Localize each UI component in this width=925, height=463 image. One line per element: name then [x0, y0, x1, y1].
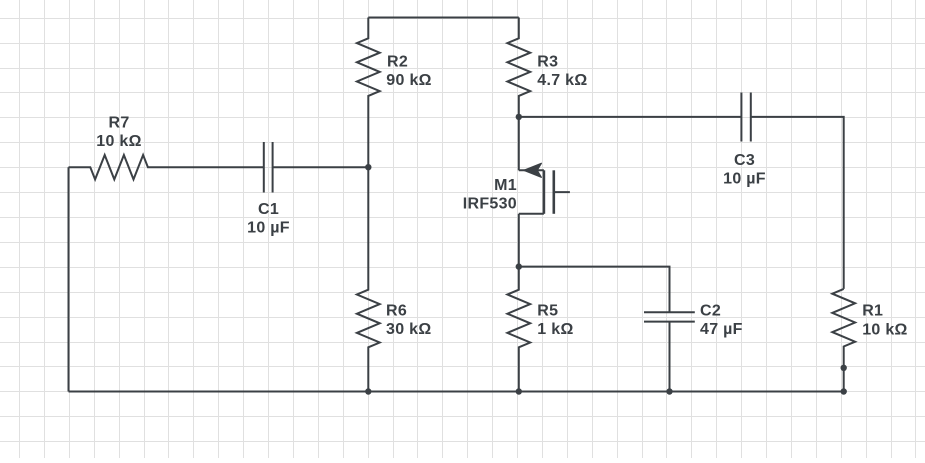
svg-text:4.7 kΩ: 4.7 kΩ	[537, 72, 587, 89]
svg-text:10 µF: 10 µF	[247, 220, 290, 237]
node divider junction	[365, 164, 371, 170]
resistor R3	[507, 18, 587, 117]
resistor R5	[507, 267, 573, 392]
svg-text:IRF530: IRF530	[463, 196, 517, 213]
capacitor C2	[644, 302, 743, 391]
svg-text:90 kΩ: 90 kΩ	[386, 72, 431, 89]
svg-text:10 kΩ: 10 kΩ	[862, 321, 907, 338]
svg-text:47 µF: 47 µF	[700, 321, 743, 338]
wire top rail	[368, 17, 519, 19]
capacitor C3	[723, 93, 766, 188]
svg-text:R6: R6	[386, 302, 407, 319]
svg-text:C2: C2	[700, 302, 721, 319]
resistor R7	[69, 115, 264, 180]
drain lead	[518, 117, 520, 170]
svg-text:10 µF: 10 µF	[723, 171, 766, 188]
gate lead	[554, 191, 570, 193]
wire bottom rail	[69, 391, 844, 393]
wire source to C2	[519, 267, 670, 313]
resistor R2	[357, 18, 432, 168]
node R5 bottom	[516, 388, 522, 394]
channel bar	[543, 170, 546, 214]
wire drain to C3	[519, 116, 742, 118]
source arm	[519, 213, 544, 215]
wire C3 to R1	[751, 117, 844, 289]
svg-text:R5: R5	[537, 302, 558, 319]
resistor R6	[357, 167, 432, 391]
transistor M1 IRF530	[463, 117, 570, 267]
svg-text:R2: R2	[387, 53, 408, 70]
svg-text:R7: R7	[108, 115, 129, 132]
node R6 bottom	[365, 388, 371, 394]
gate bar	[552, 170, 555, 214]
capacitor C1	[247, 142, 290, 237]
svg-text:R3: R3	[537, 53, 558, 70]
node drain junction	[516, 114, 522, 120]
wire C1 to divider node	[273, 166, 369, 168]
svg-text:C1: C1	[258, 201, 279, 218]
svg-text:M1: M1	[494, 177, 517, 194]
svg-text:30 kΩ: 30 kΩ	[386, 321, 431, 338]
svg-text:1 kΩ: 1 kΩ	[537, 321, 573, 338]
svg-text:R1: R1	[862, 303, 883, 320]
source lead	[518, 214, 520, 267]
resistor R1	[832, 289, 907, 392]
arrow	[524, 163, 542, 177]
node R1 bottom terminal	[841, 365, 847, 371]
wire left branch	[68, 167, 70, 391]
drain arm	[519, 169, 544, 171]
node C2 bottom	[666, 388, 672, 394]
node rail right end	[841, 388, 847, 394]
svg-text:10 kΩ: 10 kΩ	[96, 133, 141, 150]
svg-text:C3: C3	[734, 152, 755, 169]
node source junction	[516, 263, 522, 269]
